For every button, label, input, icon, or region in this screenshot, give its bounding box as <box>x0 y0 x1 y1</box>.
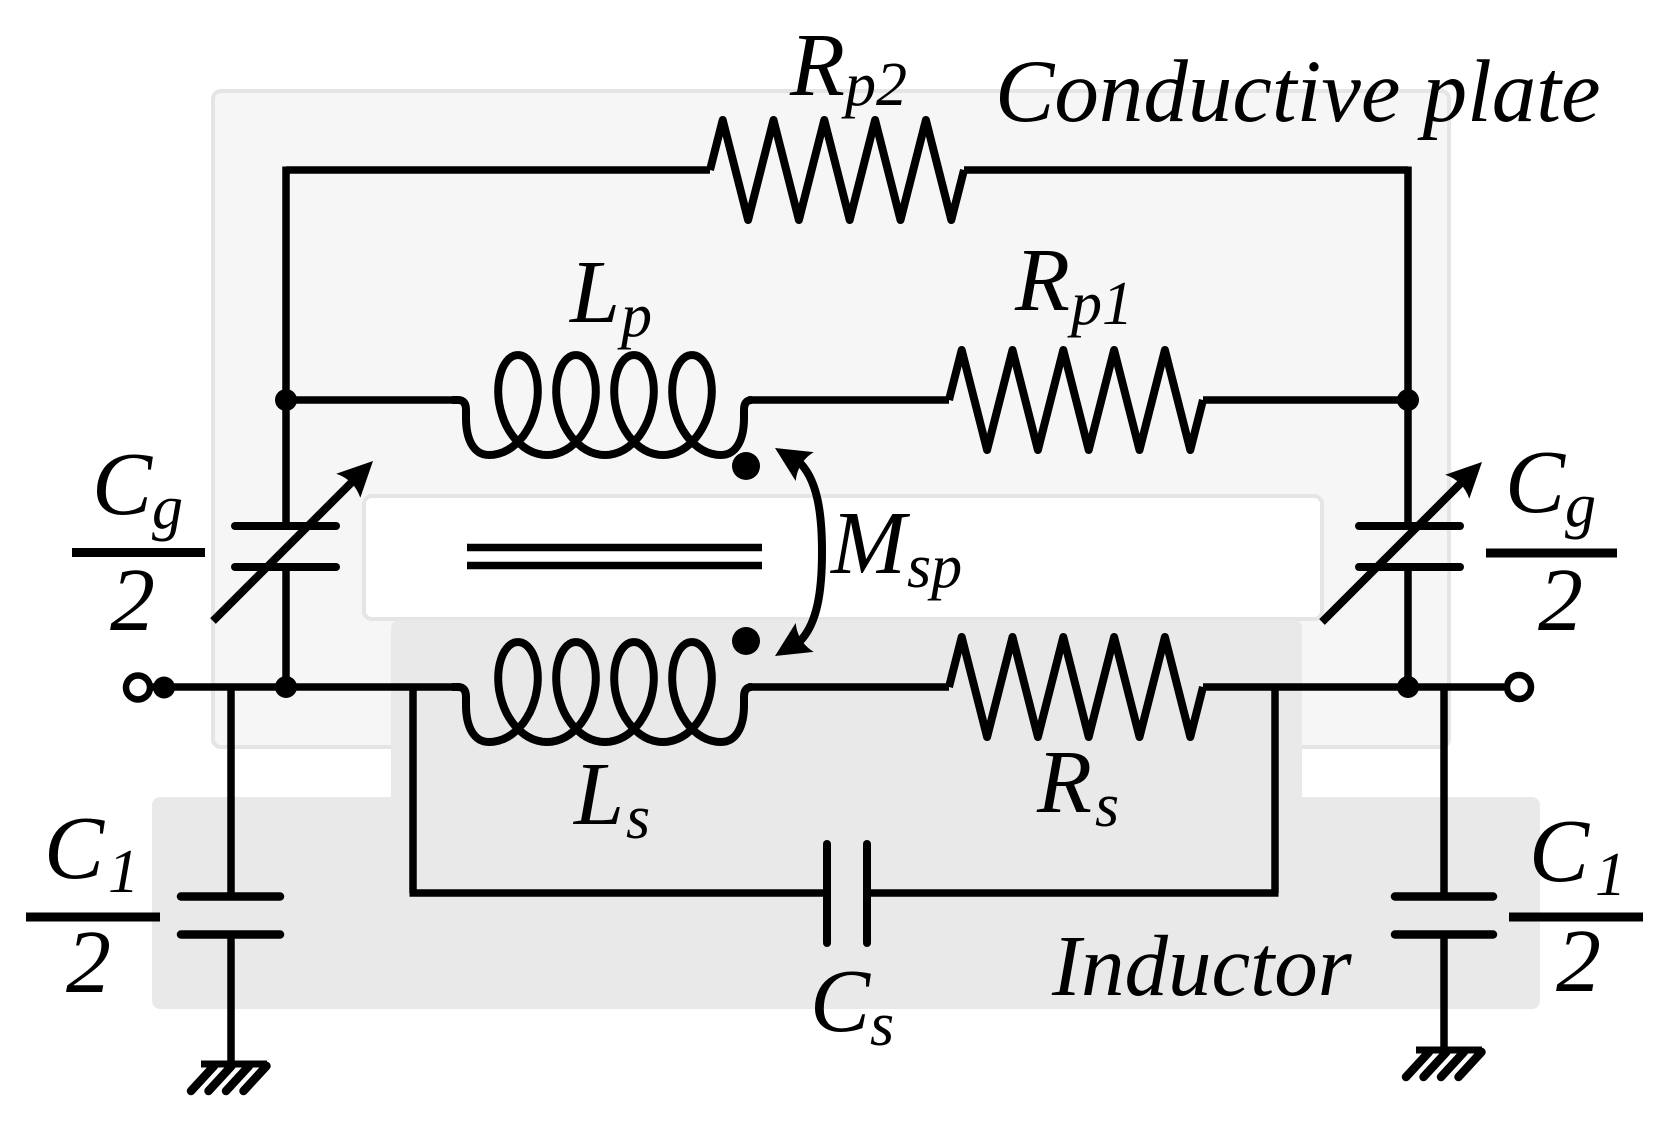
ground left <box>201 1061 267 1068</box>
svg-text:R: R <box>1014 231 1070 330</box>
svg-text:s: s <box>1095 772 1119 840</box>
svg-text:2: 2 <box>66 913 111 1012</box>
svg-text:p2: p2 <box>841 51 907 119</box>
wire left vertical upper <box>282 167 290 401</box>
ground right <box>1416 1047 1482 1054</box>
svg-text:p1: p1 <box>1067 270 1133 338</box>
capacitor C1 left <box>181 892 280 901</box>
svg-text:M: M <box>829 494 911 593</box>
svg-text:1: 1 <box>108 838 139 906</box>
wire main middle <box>748 683 949 691</box>
wire Cg right top lead <box>1404 400 1412 523</box>
wire C1 left top lead <box>227 687 235 893</box>
svg-text:R: R <box>1036 733 1092 832</box>
variable capacitor Cg right <box>1359 522 1460 530</box>
terminal left <box>126 676 150 700</box>
svg-text:2: 2 <box>1538 551 1583 650</box>
mutual coupling arrow Msp <box>797 460 822 644</box>
wire top right segment <box>964 166 1408 174</box>
svg-text:C: C <box>44 799 105 898</box>
node dot at left terminal <box>153 677 175 699</box>
svg-text:2: 2 <box>110 551 155 650</box>
wire row2 left <box>286 396 458 404</box>
wire C1 right top lead <box>1440 687 1448 893</box>
svg-text:2: 2 <box>1556 912 1601 1011</box>
inductor Ls coil <box>452 642 752 742</box>
transformer air-gap white region <box>364 496 1322 619</box>
svg-text:L: L <box>568 243 620 342</box>
svg-text:R: R <box>789 16 845 115</box>
wire main left <box>152 683 460 691</box>
polarity dot secondary <box>732 627 760 655</box>
node left main junction <box>275 676 297 698</box>
svg-text:s: s <box>870 991 894 1059</box>
svg-text:1: 1 <box>1595 841 1626 909</box>
wire Cs loop left vertical <box>409 687 417 893</box>
wire Cg left top lead <box>282 400 290 523</box>
wire row2 right <box>1203 396 1408 404</box>
variable capacitor Cg left <box>235 522 336 530</box>
wire main right <box>1203 683 1504 691</box>
capacitor Cs <box>823 844 831 943</box>
svg-text:g: g <box>1565 472 1596 540</box>
terminal right <box>1507 675 1531 699</box>
node left upper junction <box>275 389 297 411</box>
wire row2 middle <box>748 396 949 404</box>
transformer core line 1 <box>467 544 762 552</box>
polarity dot primary <box>732 452 760 480</box>
transformer core line 2 <box>467 562 762 570</box>
svg-text:s: s <box>626 784 650 852</box>
wire Cs loop right vertical <box>1271 687 1279 893</box>
svg-text:L: L <box>572 745 624 844</box>
wire top left segment <box>286 166 710 174</box>
inductor shaded region <box>391 620 1302 1009</box>
conductive plate shaded region <box>213 91 1449 747</box>
node right upper junction <box>1397 389 1419 411</box>
wire Cg right bottom lead <box>1404 570 1412 687</box>
inductor Lp coil <box>452 355 752 455</box>
svg-text:Conductive plate: Conductive plate <box>995 43 1601 141</box>
svg-text:C: C <box>810 952 871 1051</box>
svg-text:C: C <box>1505 433 1566 532</box>
svg-text:p: p <box>617 282 652 350</box>
wire Cs loop bottom right <box>871 889 1279 897</box>
svg-text:sp: sp <box>907 533 962 601</box>
svg-text:C: C <box>1529 802 1590 901</box>
resistor Rs <box>949 637 1203 737</box>
svg-text:g: g <box>152 474 183 542</box>
resistor Rp2 <box>710 120 964 220</box>
capacitor C1 right <box>1395 892 1493 901</box>
wire Cs loop bottom left <box>410 889 824 897</box>
wire Cg left bottom lead <box>282 570 290 687</box>
wire C1 right bottom lead <box>1440 938 1448 1050</box>
resistor Rp1 <box>949 350 1203 450</box>
svg-text:Inductor: Inductor <box>1051 917 1353 1014</box>
node right main junction <box>1397 676 1419 698</box>
wire C1 left bottom lead <box>227 938 235 1064</box>
svg-text:C: C <box>92 435 153 534</box>
wire right vertical upper <box>1404 167 1412 401</box>
